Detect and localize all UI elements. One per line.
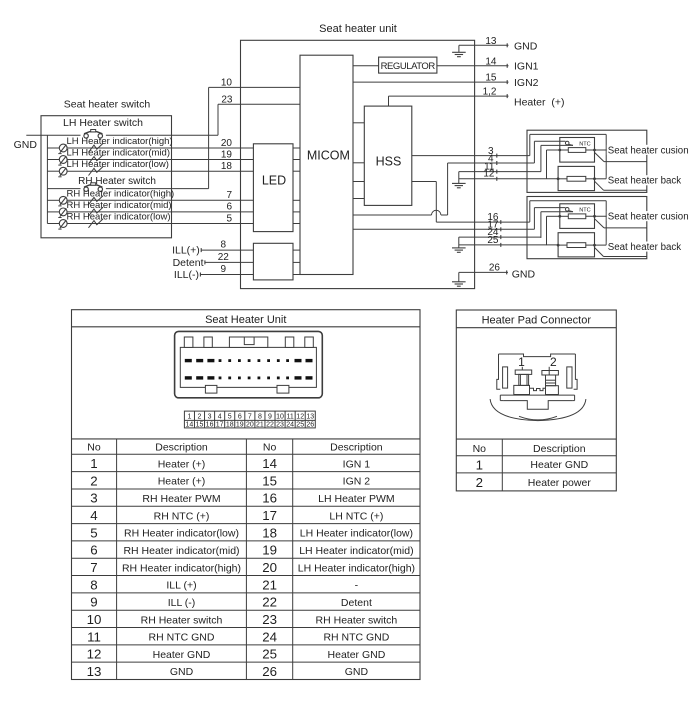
svg-text:Seat heater switch: Seat heater switch <box>64 99 151 111</box>
svg-text:1: 1 <box>476 457 483 472</box>
svg-text:LH Heater indicator(high): LH Heater indicator(high) <box>298 562 415 574</box>
svg-text:12: 12 <box>296 413 304 420</box>
svg-text:Detent: Detent <box>173 257 204 269</box>
svg-text:1: 1 <box>90 456 97 471</box>
LH back heater resistor <box>558 243 594 248</box>
table 2 title row <box>456 327 616 329</box>
lamp row RH Heater indicator(high) pin 7 <box>47 188 253 206</box>
ground at pins 11-12 <box>458 172 460 184</box>
svg-text:12: 12 <box>483 169 495 180</box>
table: Seat Heater Unit <box>72 310 421 680</box>
svg-text:1: 1 <box>518 355 525 369</box>
svg-text:1,2: 1,2 <box>483 87 497 98</box>
svg-text:10: 10 <box>87 612 102 627</box>
svg-text:10: 10 <box>221 78 233 89</box>
svg-text:Heater GND: Heater GND <box>530 459 588 471</box>
wire pin 17 LH NTC plus <box>353 219 534 231</box>
RH seat heater cusion label <box>607 145 689 157</box>
svg-text:LH Heater indicator(low): LH Heater indicator(low) <box>300 528 413 540</box>
ground at pins 24-25 <box>458 237 460 248</box>
svg-text:Heater GND: Heater GND <box>328 649 386 661</box>
table: Heater Pad Connector <box>456 310 616 491</box>
table 2 rows <box>476 457 592 490</box>
svg-text:GND: GND <box>170 666 194 678</box>
svg-text:25: 25 <box>296 422 304 429</box>
svg-text:13: 13 <box>87 664 102 679</box>
svg-text:1: 1 <box>187 413 191 420</box>
RH back leader line <box>595 181 647 190</box>
wire pin 26 GND <box>459 262 536 280</box>
svg-text:6: 6 <box>226 202 232 213</box>
illumination/detent block <box>253 243 293 280</box>
svg-text:2: 2 <box>198 413 202 420</box>
svg-text:21: 21 <box>262 577 277 592</box>
svg-text:9: 9 <box>221 264 227 275</box>
svg-text:25: 25 <box>487 235 499 246</box>
svg-text:LH Heater switch: LH Heater switch <box>63 117 143 129</box>
svg-text:RH NTC GND: RH NTC GND <box>323 632 389 644</box>
heater pad bell housing <box>490 399 586 421</box>
svg-text:17: 17 <box>216 422 224 429</box>
svg-text:HSS: HSS <box>376 155 402 169</box>
svg-text:LH Heater PWM: LH Heater PWM <box>318 493 394 505</box>
svg-text:RH Heater switch: RH Heater switch <box>316 614 398 626</box>
svg-text:ILL (+): ILL (+) <box>166 580 196 592</box>
svg-text:No: No <box>87 442 101 454</box>
LH heater pad outer box <box>527 197 647 259</box>
svg-text:16: 16 <box>262 491 277 506</box>
wire pin 13 GND <box>459 36 538 53</box>
svg-text:24: 24 <box>286 422 294 429</box>
svg-text:RH Heater indicator(high): RH Heater indicator(high) <box>67 188 175 199</box>
wire LH switch to pin 23 <box>172 95 301 136</box>
lamp row RH Heater indicator(low) pin 5 <box>47 212 253 230</box>
svg-text:Seat Heater Unit: Seat Heater Unit <box>205 314 286 326</box>
svg-text:RH NTC GND: RH NTC GND <box>149 632 215 644</box>
svg-text:23: 23 <box>221 95 233 106</box>
LH seat heater back label <box>607 242 681 254</box>
svg-text:26: 26 <box>489 262 501 273</box>
svg-text:LH Heater indicator(mid): LH Heater indicator(mid) <box>299 545 413 557</box>
svg-text:No: No <box>263 442 277 454</box>
RH cushion pad box <box>560 138 595 163</box>
svg-text:NTC: NTC <box>579 141 591 147</box>
svg-text:2: 2 <box>90 473 97 488</box>
svg-text:5: 5 <box>226 213 232 224</box>
ground at pin 13 <box>458 45 460 52</box>
svg-text:15: 15 <box>196 422 204 429</box>
svg-text:LH Heater indicator(high): LH Heater indicator(high) <box>67 136 173 147</box>
wires MICOM to HSS <box>353 123 364 199</box>
svg-text:Seat heater cusion: Seat heater cusion <box>608 145 689 156</box>
MICOM U1 <box>300 55 353 274</box>
svg-text:LH NTC (+): LH NTC (+) <box>329 510 383 522</box>
svg-text:GND: GND <box>345 666 369 678</box>
svg-text:14: 14 <box>186 422 194 429</box>
svg-text:10: 10 <box>276 413 284 420</box>
wire pin 4 RH NTC plus <box>353 153 534 215</box>
svg-text:11: 11 <box>87 629 101 644</box>
svg-text:22: 22 <box>218 252 230 263</box>
RH NTC thermistor <box>534 141 590 147</box>
svg-text:Seat heater back: Seat heater back <box>608 176 681 187</box>
LED block <box>253 144 293 232</box>
svg-text:20: 20 <box>221 138 233 149</box>
svg-text:LH Heater indicator(mid): LH Heater indicator(mid) <box>67 148 170 159</box>
svg-text:13: 13 <box>485 36 497 47</box>
wire pin 25 heater GND <box>459 235 558 247</box>
seat heater unit connector drawing <box>175 331 323 397</box>
svg-text:14: 14 <box>485 56 497 67</box>
svg-text:REGULATOR: REGULATOR <box>381 61 436 72</box>
svg-text:RH Heater indicator(mid): RH Heater indicator(mid) <box>67 200 172 211</box>
table 1 rows <box>87 456 415 679</box>
svg-text:19: 19 <box>262 543 277 558</box>
GND wire into switch <box>26 134 80 136</box>
connector pin number strip <box>184 411 315 429</box>
svg-text:LH Heater indicator(low): LH Heater indicator(low) <box>67 159 169 170</box>
svg-text:IGN 2: IGN 2 <box>343 476 371 488</box>
LH back leader line <box>595 248 647 257</box>
lamp row LH Heater indicator(high) pin 20 <box>47 136 253 154</box>
svg-text:3: 3 <box>208 413 212 420</box>
table 1 header <box>87 442 383 454</box>
svg-text:RH Heater indicator(high): RH Heater indicator(high) <box>122 562 241 574</box>
LH cushion leader line <box>595 219 647 228</box>
svg-text:15: 15 <box>485 72 497 83</box>
svg-text:Description: Description <box>330 442 383 454</box>
table title row <box>72 326 421 328</box>
svg-text:5: 5 <box>228 413 232 420</box>
table 2 grid <box>456 439 616 491</box>
svg-text:Heater (+): Heater (+) <box>158 458 206 470</box>
svg-text:21: 21 <box>256 422 264 429</box>
svg-text:7: 7 <box>248 413 252 420</box>
svg-text:Description: Description <box>533 443 586 455</box>
LH pad internal routing <box>530 201 606 245</box>
svg-text:4: 4 <box>90 508 97 523</box>
wire pin 15 IGN2 <box>353 72 539 89</box>
wire pin 14 IGN1 <box>437 56 539 72</box>
svg-text:23: 23 <box>262 612 277 627</box>
svg-text:7: 7 <box>226 190 232 201</box>
svg-text:12: 12 <box>87 647 102 662</box>
svg-text:24: 24 <box>262 629 277 644</box>
svg-text:Seat heater cusion: Seat heater cusion <box>608 212 689 223</box>
svg-text:5: 5 <box>90 525 97 540</box>
svg-text:MICOM: MICOM <box>307 149 350 163</box>
svg-text:IGN 1: IGN 1 <box>343 458 371 470</box>
wire pin 11 RH NTC GND <box>459 161 541 173</box>
svg-text:8: 8 <box>221 240 227 251</box>
RH pad junctions <box>557 149 596 181</box>
svg-text:20: 20 <box>246 422 254 429</box>
svg-text:GND: GND <box>14 139 38 151</box>
RH cushion heater resistor <box>560 148 647 153</box>
wire pin 24 RH NTC GND <box>459 227 541 239</box>
svg-text:LED: LED <box>262 174 286 188</box>
RH heater pad outer box <box>527 130 647 192</box>
LH cushion pad box <box>560 204 595 229</box>
svg-text:19: 19 <box>236 422 244 429</box>
lamp row LH Heater indicator(mid) pin 19 <box>47 148 253 166</box>
svg-text:22: 22 <box>266 422 274 429</box>
svg-text:Seat heater back: Seat heater back <box>608 242 681 253</box>
connector pins rows <box>185 359 313 380</box>
svg-text:RH Heater indicator(mid): RH Heater indicator(mid) <box>123 545 239 557</box>
wire RH switch to pin 10 <box>172 78 301 189</box>
svg-text:18: 18 <box>226 422 234 429</box>
svg-text:6: 6 <box>238 413 242 420</box>
svg-text:8: 8 <box>258 413 262 420</box>
svg-text:9: 9 <box>268 413 272 420</box>
svg-text:22: 22 <box>262 595 277 610</box>
ground at pin 26 <box>458 272 460 281</box>
wire pin 3 RH heater PWM <box>412 146 530 158</box>
heater pad terminal 2 <box>542 355 559 394</box>
wire ILL(-) pin 9 <box>174 264 300 281</box>
lamp row LH Heater indicator(low) pin 18 <box>47 159 253 177</box>
svg-text:23: 23 <box>276 422 284 429</box>
RH back heater resistor <box>558 176 594 181</box>
heater pad connector drawing <box>497 354 577 389</box>
RH cushion leader line <box>595 152 647 161</box>
RH back pad box <box>558 166 594 190</box>
RH seat heater back label <box>607 175 681 187</box>
svg-text:26: 26 <box>306 422 314 429</box>
svg-text:2: 2 <box>476 475 483 490</box>
svg-text:14: 14 <box>262 456 277 471</box>
LH NTC thermistor <box>534 208 590 214</box>
LH cushion heater resistor <box>560 214 647 219</box>
svg-text:RH Heater switch: RH Heater switch <box>141 614 223 626</box>
wire Detent pin 22 <box>173 252 300 269</box>
svg-text:17: 17 <box>262 508 277 523</box>
svg-text:RH Heater indicator(low): RH Heater indicator(low) <box>124 528 239 540</box>
svg-text:RH Heater indicator(low): RH Heater indicator(low) <box>67 212 171 223</box>
svg-text:11: 11 <box>286 413 293 420</box>
svg-text:Detent: Detent <box>341 597 372 609</box>
svg-text:16: 16 <box>206 422 214 429</box>
svg-text:Heater Pad Connector: Heater Pad Connector <box>482 315 592 327</box>
svg-text:8: 8 <box>90 577 97 592</box>
svg-text:RH Heater PWM: RH Heater PWM <box>142 493 220 505</box>
svg-text:IGN2: IGN2 <box>514 77 539 89</box>
wire pin 12 heater GND <box>459 169 558 181</box>
wires LED to MICOM <box>293 148 300 224</box>
svg-text:Seat heater unit: Seat heater unit <box>319 23 397 35</box>
svg-text:IGN1: IGN1 <box>514 60 539 72</box>
svg-text:13: 13 <box>306 413 314 420</box>
switch common bus <box>46 135 48 223</box>
svg-text:-: - <box>355 580 359 592</box>
svg-text:2: 2 <box>550 355 557 369</box>
wire pin 16 LH heater PWM <box>412 182 530 225</box>
svg-text:Heater (+): Heater (+) <box>158 476 206 488</box>
svg-text:RH NTC (+): RH NTC (+) <box>154 510 210 522</box>
svg-text:NTC: NTC <box>579 208 591 214</box>
svg-text:GND: GND <box>514 41 538 53</box>
LH heater switch box <box>41 116 172 238</box>
svg-text:Heater (+): Heater (+) <box>514 96 564 108</box>
LH seat heater cusion label <box>607 211 689 223</box>
LH pad junctions <box>557 215 596 247</box>
LH back pad box <box>558 233 594 257</box>
svg-text:ILL(+): ILL(+) <box>172 245 200 257</box>
svg-text:Description: Description <box>155 442 208 454</box>
svg-text:4: 4 <box>218 413 222 420</box>
svg-text:20: 20 <box>262 560 277 575</box>
svg-text:18: 18 <box>221 161 233 172</box>
svg-text:15: 15 <box>262 473 277 488</box>
svg-text:3: 3 <box>90 491 97 506</box>
table 1 grid <box>72 439 421 680</box>
svg-text:25: 25 <box>262 647 277 662</box>
RH pad internal routing <box>530 134 606 178</box>
svg-text:6: 6 <box>90 543 97 558</box>
switch S1 LH heater switch <box>84 130 172 139</box>
svg-text:No: No <box>473 443 487 455</box>
heater pad terminal 1 <box>514 355 532 394</box>
seat heater unit box <box>241 40 475 288</box>
heater pad housing base <box>500 388 574 409</box>
switch S2 RH heater switch <box>47 183 171 192</box>
regulator U3 <box>379 57 437 73</box>
svg-text:9: 9 <box>90 595 97 610</box>
svg-text:GND: GND <box>512 269 536 281</box>
lamp row RH Heater indicator(mid) pin 6 <box>47 200 253 218</box>
svg-text:18: 18 <box>262 525 277 540</box>
table 2 header <box>473 443 586 455</box>
wire ILL(+) pin 8 <box>172 240 300 257</box>
svg-text:7: 7 <box>90 560 97 575</box>
svg-text:Heater GND: Heater GND <box>153 649 211 661</box>
svg-text:Heater power: Heater power <box>528 477 592 489</box>
svg-text:ILL(-): ILL(-) <box>174 269 199 281</box>
svg-text:19: 19 <box>221 149 233 160</box>
svg-text:26: 26 <box>262 664 277 679</box>
wire pin 1.2 Heater plus <box>389 87 565 109</box>
HSS U2 <box>364 106 412 205</box>
wire MICOM to regulator <box>353 65 379 67</box>
svg-text:ILL (-): ILL (-) <box>168 597 196 609</box>
